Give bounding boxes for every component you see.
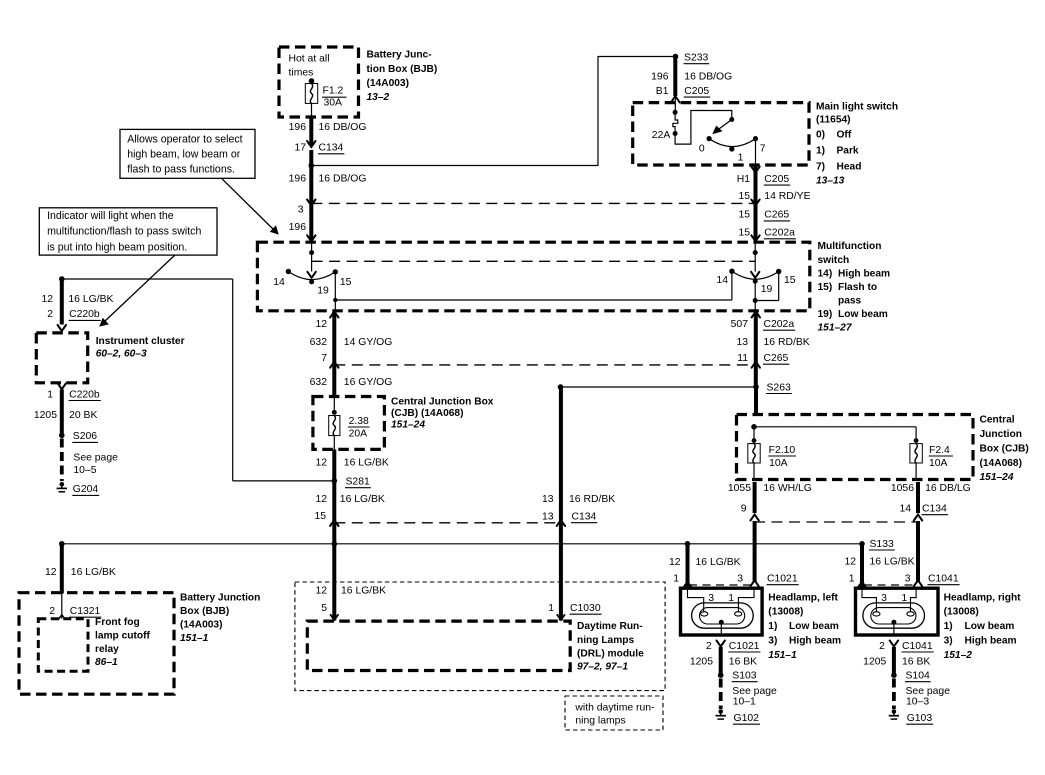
- wire 12 16 LG/BK 5 (to DRL module): [315, 544, 386, 621]
- svg-text:16 RD/BK: 16 RD/BK: [569, 494, 615, 505]
- ground G204: [57, 482, 100, 495]
- svg-text:10–3: 10–3: [906, 697, 929, 708]
- wire 196 16 DB/OG (C134 to C265): [289, 150, 367, 206]
- fuse F2.4 10A: [910, 444, 953, 480]
- central junction box CJB (fuse 2.38): [313, 397, 385, 450]
- svg-text:C1041: C1041: [928, 574, 959, 585]
- svg-text:1055: 1055: [728, 483, 751, 494]
- wire 12 16 LG/BK 2 C220b (to instrument cluster): [41, 279, 113, 331]
- svg-text:S133: S133: [870, 539, 894, 550]
- svg-text:2: 2: [49, 606, 55, 617]
- daytime running lamps DRL module box: [307, 621, 570, 670]
- fuse F1.2 30A: [305, 78, 346, 117]
- in-line connector C134 (right dashed segment): [754, 521, 916, 523]
- headlamp left internal pins 3 1: [688, 588, 755, 612]
- svg-text:F2.4: F2.4: [929, 445, 950, 456]
- svg-text:12: 12: [41, 294, 53, 305]
- circuit breaker 22A: [652, 110, 678, 141]
- svg-text:Headlamp, left: Headlamp, left: [768, 593, 838, 604]
- wire 632 16 GY/OG: [310, 362, 393, 397]
- svg-text:C1321: C1321: [70, 606, 101, 617]
- main light switch box: [633, 103, 809, 165]
- label Central Junction Box (CJB) (14A068) 151-24: [391, 396, 494, 430]
- svg-text:19: 19: [761, 284, 773, 295]
- svg-text:2: 2: [47, 309, 53, 320]
- svg-text:14 RD/YE: 14 RD/YE: [764, 191, 810, 202]
- splice S263: [558, 382, 792, 393]
- callout note: indicator will light: [39, 208, 217, 255]
- svg-text:16 LG/BK: 16 LG/BK: [696, 557, 741, 568]
- wire 2 C1021 1205 16 BK (headlamp left to S103): [690, 641, 761, 674]
- svg-text:Junction: Junction: [980, 429, 1022, 440]
- svg-text:16 RD/BK: 16 RD/BK: [764, 337, 810, 348]
- svg-text:3: 3: [298, 205, 304, 216]
- svg-text:Central: Central: [980, 414, 1015, 425]
- splice S233: [673, 53, 710, 64]
- svg-text:Off: Off: [837, 130, 852, 141]
- svg-text:See page: See page: [73, 452, 118, 463]
- svg-text:11: 11: [737, 353, 748, 364]
- svg-text:1205: 1205: [863, 657, 886, 668]
- svg-text:7): 7): [816, 162, 825, 173]
- svg-text:0: 0: [699, 143, 705, 154]
- svg-text:7: 7: [760, 143, 766, 154]
- wire 2 C1041 1205 16 BK (headlamp right to S104): [863, 641, 933, 674]
- wire 196 16 DB/OG (fuse F1.2 to C134): [289, 117, 367, 147]
- svg-text:S233: S233: [684, 53, 708, 64]
- svg-text:Multifunction: Multifunction: [818, 241, 882, 252]
- svg-text:20 BK: 20 BK: [69, 410, 97, 421]
- svg-text:10–5: 10–5: [73, 465, 96, 476]
- svg-text:pass: pass: [838, 295, 862, 306]
- svg-text:1: 1: [548, 603, 554, 614]
- svg-text:14): 14): [818, 268, 833, 279]
- svg-text:16 LG/BK: 16 LG/BK: [870, 557, 915, 568]
- wire 12 632 14 GY/OG: [310, 312, 393, 365]
- wire S281 to instrument cluster (thin link): [62, 279, 335, 481]
- svg-text:C1041: C1041: [902, 641, 933, 652]
- label Headlamp left (13008): [768, 593, 841, 662]
- svg-text:C134: C134: [572, 512, 597, 523]
- svg-text:10A: 10A: [769, 458, 788, 469]
- label Front fog lamp cutoff relay 86-1: [95, 617, 151, 668]
- multifunction left switch output wire: [333, 272, 337, 311]
- svg-text:C134: C134: [319, 143, 344, 154]
- svg-text:14: 14: [899, 504, 911, 515]
- svg-text:196: 196: [289, 173, 307, 184]
- wire 12 16 LG/BK (to fog lamp relay): [45, 544, 116, 594]
- label Battery Junction Box (BJB) (14A003) 151-1: [180, 593, 260, 645]
- svg-text:196: 196: [289, 122, 307, 133]
- wire 196 B1 16 DB/OG C205 (S233 to main light switch): [651, 58, 732, 112]
- svg-text:(14A068): (14A068): [980, 458, 1022, 469]
- splice S103: [718, 671, 758, 682]
- svg-text:ning Lamps: ning Lamps: [577, 635, 634, 646]
- svg-text:16 LG/BK: 16 LG/BK: [68, 294, 113, 305]
- svg-text:Box (CJB): Box (CJB): [980, 443, 1029, 454]
- wire 507 C202a 13 16 RD/BK 11 C265: [731, 312, 810, 387]
- svg-text:15: 15: [784, 275, 796, 286]
- svg-text:3): 3): [944, 636, 953, 647]
- svg-text:151–1: 151–1: [180, 633, 209, 644]
- svg-text:H1: H1: [737, 174, 751, 185]
- svg-text:196: 196: [651, 72, 669, 83]
- svg-text:14: 14: [717, 275, 729, 286]
- svg-text:C220b: C220b: [69, 309, 100, 320]
- svg-text:12: 12: [45, 567, 57, 578]
- wire C134 to LG/BK distribution node: [332, 523, 336, 544]
- svg-text:times: times: [289, 68, 314, 79]
- svg-text:13–2: 13–2: [367, 92, 390, 103]
- svg-text:Low beam: Low beam: [789, 621, 839, 632]
- central junction box CJB (right): [737, 415, 974, 480]
- svg-text:196: 196: [289, 222, 307, 233]
- wire 15 C202a (C265 to multifunction): [738, 205, 796, 242]
- svg-text:3): 3): [768, 636, 777, 647]
- svg-text:S103: S103: [732, 671, 756, 682]
- svg-text:See page: See page: [906, 686, 951, 697]
- svg-text:C220b: C220b: [69, 389, 100, 400]
- svg-text:151–27: 151–27: [818, 322, 853, 333]
- svg-text:C1021: C1021: [767, 574, 798, 585]
- svg-text:15: 15: [738, 210, 750, 221]
- svg-text:97–2, 97–1: 97–2, 97–1: [577, 661, 628, 672]
- DRL option outline box (dashed): [295, 582, 665, 691]
- svg-text:632: 632: [310, 337, 328, 348]
- svg-text:Low beam: Low beam: [965, 621, 1015, 632]
- svg-text:16 LG/BK: 16 LG/BK: [340, 494, 385, 505]
- svg-text:ning lamps: ning lamps: [575, 716, 625, 727]
- svg-text:1: 1: [673, 574, 679, 585]
- svg-text:20A: 20A: [349, 428, 368, 439]
- headlamp right bulb: [863, 603, 925, 635]
- svg-text:Box (BJB): Box (BJB): [180, 606, 229, 617]
- callout arrow to instrument cluster: [99, 255, 175, 327]
- svg-text:tion Box (BJB): tion Box (BJB): [367, 64, 438, 75]
- svg-text:1056: 1056: [891, 483, 914, 494]
- svg-text:14: 14: [273, 277, 285, 288]
- svg-text:Hot at all: Hot at all: [289, 54, 330, 65]
- wire C134 to headlamp left pin 3: [750, 521, 758, 586]
- svg-text:(DRL) module: (DRL) module: [577, 648, 644, 659]
- svg-text:151–24: 151–24: [980, 472, 1014, 483]
- svg-text:2.38: 2.38: [349, 416, 369, 427]
- svg-text:9: 9: [741, 504, 747, 515]
- svg-text:flash to pass functions.: flash to pass functions.: [127, 163, 235, 175]
- wire 12 16 LG/BK 1 (to headlamp right): [844, 544, 959, 588]
- svg-text:1: 1: [849, 574, 855, 585]
- svg-text:13: 13: [542, 512, 554, 523]
- svg-text:Main light switch: Main light switch: [816, 102, 898, 113]
- svg-text:1): 1): [944, 621, 953, 632]
- svg-text:G103: G103: [907, 713, 933, 724]
- svg-text:C205: C205: [684, 86, 709, 97]
- svg-text:151–1: 151–1: [768, 650, 797, 661]
- label Main light switch (11654): [816, 102, 898, 187]
- front fog lamp cutoff relay box: [38, 619, 88, 671]
- svg-text:Headlamp, right: Headlamp, right: [944, 593, 1022, 604]
- svg-text:22A: 22A: [652, 130, 671, 141]
- svg-text:relay: relay: [95, 644, 119, 655]
- svg-text:Park: Park: [837, 146, 859, 157]
- label Multifunction switch: [818, 241, 891, 333]
- svg-text:(11654): (11654): [816, 115, 851, 126]
- multifunction right switch input: [751, 244, 759, 278]
- svg-text:F1.2: F1.2: [323, 85, 344, 96]
- multifunction switch box: [257, 242, 809, 311]
- svg-text:12: 12: [315, 319, 327, 330]
- svg-text:lamp cutoff: lamp cutoff: [95, 630, 151, 641]
- svg-text:G204: G204: [73, 484, 99, 495]
- wire tap to S233: [311, 57, 673, 166]
- svg-text:high beam, low beam or: high beam, low beam or: [127, 148, 241, 160]
- svg-text:C1030: C1030: [570, 603, 601, 614]
- wire 12 16 LG/BK 15 (S281 to C134): [314, 483, 384, 526]
- svg-text:16 DB/OG: 16 DB/OG: [684, 72, 732, 83]
- wire S263 into CJB: [754, 388, 758, 414]
- label Central Junction Box (CJB) right: [980, 414, 1029, 483]
- svg-text:16 DB/LG: 16 DB/LG: [925, 483, 971, 494]
- svg-text:1205: 1205: [34, 410, 57, 421]
- callout note: allows operator to select: [120, 129, 255, 178]
- callout arrow to multifunction switch: [222, 178, 279, 234]
- main light switch wiper arm: [712, 120, 732, 135]
- svg-text:16 BK: 16 BK: [729, 657, 757, 668]
- svg-text:Front fog: Front fog: [95, 617, 140, 628]
- main light switch internal wiring: [675, 111, 734, 145]
- wire 13 16 RD/BK 13 C134 (S263 to DRL): [542, 388, 615, 621]
- svg-text:Instrument cluster: Instrument cluster: [96, 336, 185, 347]
- fuse 2.38 20A: [329, 397, 370, 450]
- connector C1321 pin 2: [49, 594, 101, 620]
- svg-text:12: 12: [844, 557, 856, 568]
- svg-text:19: 19: [317, 285, 329, 296]
- svg-text:Battery Junction: Battery Junction: [180, 593, 260, 604]
- svg-text:Allows operator to select: Allows operator to select: [127, 133, 242, 145]
- svg-text:2: 2: [706, 641, 712, 652]
- splice S281: [332, 477, 371, 488]
- multifunction left switch input: [307, 244, 315, 278]
- wire 1056 16 DB/LG 14 C134 (F2.4 to C134): [891, 482, 971, 521]
- svg-text:15: 15: [738, 191, 750, 202]
- svg-text:7: 7: [321, 353, 327, 364]
- CJB internal feed to fuses: [751, 424, 918, 444]
- svg-text:Flash to: Flash to: [838, 282, 877, 293]
- svg-text:17: 17: [294, 143, 306, 154]
- svg-text:15: 15: [314, 511, 326, 522]
- svg-text:151–24: 151–24: [391, 420, 425, 431]
- svg-text:5: 5: [321, 603, 327, 614]
- label Daytime Running Lamps (DRL) module: [577, 621, 644, 672]
- svg-text:(14A003): (14A003): [180, 620, 222, 631]
- multifunction left switch contacts 14 19 15: [273, 269, 351, 297]
- note box: with daytime running lamps: [565, 696, 663, 730]
- svg-text:C265: C265: [764, 353, 789, 364]
- wire H1 C205 (switch output): [737, 167, 790, 186]
- wire S103 to G102 (dashed): [721, 679, 777, 710]
- wire C134 to headlamp right pin 3: [914, 521, 922, 586]
- svg-text:switch: switch: [818, 255, 850, 266]
- splice S104: [891, 671, 931, 682]
- wire 1055 16 WH/LG 9 (F2.10 to C134): [728, 482, 812, 521]
- svg-text:10–1: 10–1: [733, 697, 756, 708]
- svg-text:16 WH/LG: 16 WH/LG: [763, 483, 812, 494]
- svg-text:C1021: C1021: [729, 641, 760, 652]
- wire 12 16 LG/BK (fuse 2.38 to S281): [315, 449, 388, 479]
- svg-text:(13008): (13008): [768, 607, 803, 618]
- svg-text:16 LG/BK: 16 LG/BK: [71, 567, 116, 578]
- svg-text:1205: 1205: [690, 657, 713, 668]
- svg-text:0): 0): [816, 130, 825, 141]
- svg-text:16 DB/OG: 16 DB/OG: [319, 122, 367, 133]
- svg-text:12: 12: [315, 458, 327, 469]
- svg-text:Daytime Run-: Daytime Run-: [577, 621, 643, 632]
- svg-text:C205: C205: [764, 174, 789, 185]
- svg-text:1): 1): [768, 621, 777, 632]
- fuse F2.10 10A: [748, 444, 796, 480]
- svg-text:13: 13: [542, 494, 554, 505]
- svg-text:13–13: 13–13: [816, 176, 845, 187]
- svg-text:multifunction/flash to pass sw: multifunction/flash to pass switch: [47, 226, 201, 238]
- svg-text:14 GY/OG: 14 GY/OG: [344, 337, 393, 348]
- wire S206 to G204 (dashed continuation): [62, 439, 118, 482]
- wire S104 to G103 (dashed): [894, 679, 950, 710]
- headlamp right box: [856, 588, 939, 635]
- svg-text:C265: C265: [764, 210, 789, 221]
- svg-text:G102: G102: [734, 713, 760, 724]
- svg-text:F2.10: F2.10: [769, 445, 796, 456]
- svg-text:Battery Junc-: Battery Junc-: [367, 50, 432, 61]
- wire 15 14 RD/YE: [738, 166, 810, 206]
- label Headlamp right (13008): [944, 593, 1022, 662]
- in-line connector C134 (left dashed segment): [334, 522, 560, 524]
- multifunction mechanical link (dashed): [312, 260, 756, 262]
- svg-text:16 GY/OG: 16 GY/OG: [344, 377, 393, 388]
- svg-text:15: 15: [738, 228, 750, 239]
- svg-text:12: 12: [315, 494, 327, 505]
- node junction at C134 to S233 tap: [309, 163, 315, 169]
- multifunction link wire 15-to-14: [335, 271, 732, 300]
- svg-text:15): 15): [818, 282, 833, 293]
- svg-text:with daytime run-: with daytime run-: [574, 703, 654, 714]
- svg-text:60–2, 60–3: 60–2, 60–3: [96, 349, 147, 360]
- node junction instrument cluster feed: [59, 276, 65, 282]
- ground G103: [889, 709, 933, 724]
- instrument cluster box: [36, 333, 87, 383]
- svg-text:See page: See page: [732, 686, 777, 697]
- svg-text:3: 3: [737, 574, 743, 585]
- splice S133: [859, 539, 895, 550]
- connector C265 pin 15: [738, 210, 790, 221]
- wire 196 pin 3 (C265 to multifunction switch): [289, 205, 316, 242]
- svg-text:151–2: 151–2: [944, 650, 973, 661]
- svg-text:15: 15: [340, 277, 352, 288]
- headlamp left bulb: [692, 603, 754, 635]
- label Instrument cluster 60-2 60-3: [96, 336, 185, 360]
- svg-text:(14A003): (14A003): [367, 78, 409, 89]
- in-line connector C265 (upper dashed line): [311, 202, 755, 204]
- svg-text:3: 3: [905, 574, 911, 585]
- label Battery Junction Box (BJB) (14A003) 13-2: [367, 50, 438, 103]
- svg-text:16 BK: 16 BK: [902, 657, 930, 668]
- svg-text:(13008): (13008): [944, 607, 979, 618]
- in-line connector C1041 (dashed): [864, 584, 917, 586]
- battery junction box BJB (bottom): [19, 593, 174, 695]
- svg-text:16 LG/BK: 16 LG/BK: [344, 458, 389, 469]
- svg-text:12: 12: [315, 586, 327, 597]
- svg-text:S263: S263: [767, 382, 791, 393]
- svg-text:19): 19): [818, 309, 833, 320]
- multifunction right switch output wire: [753, 272, 779, 311]
- svg-text:30A: 30A: [324, 98, 343, 109]
- ground G102: [716, 709, 760, 724]
- multifunction right switch contacts 14 19 15: [717, 269, 796, 296]
- in-line connector C1021 (dashed): [689, 584, 753, 586]
- svg-text:Head: Head: [837, 162, 862, 173]
- svg-text:1): 1): [816, 146, 825, 157]
- svg-text:S281: S281: [346, 477, 370, 488]
- svg-text:C202a: C202a: [764, 319, 795, 330]
- svg-text:is put into high beam position: is put into high beam position.: [47, 241, 187, 253]
- svg-text:Indicator will light when the: Indicator will light when the: [47, 210, 174, 222]
- in-line connector C265 (lower dashed line): [334, 364, 756, 366]
- svg-text:16 LG/BK: 16 LG/BK: [341, 586, 386, 597]
- svg-text:Low beam: Low beam: [838, 309, 888, 320]
- connector C134 pin 17: [294, 143, 344, 154]
- LG/BK distribution wire (horizontal): [59, 541, 862, 547]
- headlamp left box: [681, 588, 763, 635]
- svg-text:10A: 10A: [929, 458, 948, 469]
- svg-text:632: 632: [310, 377, 328, 388]
- svg-text:2: 2: [879, 641, 885, 652]
- svg-text:C134: C134: [922, 504, 947, 515]
- headlamp right internal pins 3 1: [862, 588, 916, 612]
- svg-text:Central Junction Box: Central Junction Box: [391, 396, 494, 407]
- svg-text:High beam: High beam: [789, 636, 841, 647]
- svg-text:High beam: High beam: [838, 268, 890, 279]
- svg-text:1: 1: [47, 389, 53, 400]
- svg-text:C202a: C202a: [764, 228, 795, 239]
- svg-text:13: 13: [736, 337, 748, 348]
- svg-text:S206: S206: [73, 431, 97, 442]
- wire 1 C220b 1205 20 BK (instrument cluster to S206): [34, 383, 101, 434]
- svg-text:86–1: 86–1: [95, 657, 118, 668]
- svg-text:High beam: High beam: [965, 636, 1017, 647]
- svg-text:1: 1: [738, 152, 744, 163]
- battery junction box BJB (top): [279, 47, 359, 117]
- svg-text:(CJB) (14A068): (CJB) (14A068): [391, 408, 463, 419]
- wire 12 16 LG/BK 1 (to headlamp left): [669, 544, 799, 588]
- splice S206: [59, 431, 98, 442]
- svg-text:507: 507: [731, 319, 749, 330]
- main light switch contacts 0 1 7: [699, 136, 766, 165]
- svg-text:16 DB/OG: 16 DB/OG: [319, 173, 367, 184]
- svg-text:12: 12: [669, 557, 681, 568]
- svg-text:B1: B1: [656, 86, 669, 97]
- svg-text:S104: S104: [906, 671, 930, 682]
